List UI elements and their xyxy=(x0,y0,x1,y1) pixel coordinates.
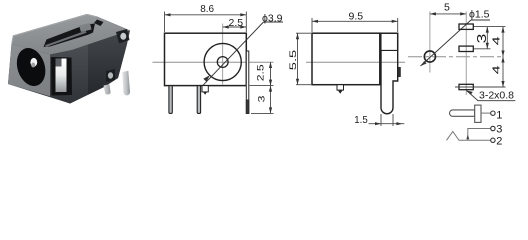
svg-text:3-2x0.8: 3-2x0.8 xyxy=(479,90,514,102)
front view: body rectangle xyxy=(165,33,247,85)
photo: slot face xyxy=(50,45,88,104)
photo: side slot opening xyxy=(51,57,72,96)
dimension 3 right line xyxy=(251,112,274,114)
dimension 1.5 line and outside arrows xyxy=(369,123,405,125)
top view: vertical centerline of circle xyxy=(429,12,431,73)
schematic: branch to pin 3 xyxy=(468,129,491,141)
dimension 4 upper: extension xyxy=(455,86,506,88)
side view: top tab xyxy=(380,33,397,50)
svg-text:5.5: 5.5 xyxy=(288,50,299,70)
top view: pin 2 rect (fill) xyxy=(459,46,473,51)
svg-text:2.5: 2.5 xyxy=(255,64,265,81)
photo: small pin stub xyxy=(104,84,111,94)
front view: vertical centerline of barrel xyxy=(222,24,224,85)
svg-text:ϕ3.9: ϕ3.9 xyxy=(262,13,283,25)
dimension 4 upper line xyxy=(502,27,504,57)
schematic: center pin capsule xyxy=(449,110,474,116)
svg-text:8.6: 8.6 xyxy=(200,3,214,15)
front view: diameter leader line xyxy=(203,22,264,86)
photo: small square hole top right xyxy=(94,20,104,27)
svg-text:ϕ1.5: ϕ1.5 xyxy=(469,9,490,21)
top view: phi1.5 underline xyxy=(471,19,490,21)
schematic group xyxy=(447,105,503,147)
front view: left pin xyxy=(169,86,172,114)
top view: pin 3 rect (fill) xyxy=(459,84,473,89)
side view: front flange leg with rounded bottom xyxy=(381,50,398,113)
side view group xyxy=(288,10,405,126)
side view: right small tab xyxy=(398,68,401,77)
svg-text:2: 2 xyxy=(496,135,502,147)
photo: top slot inner back highlight xyxy=(79,23,92,32)
top view: pin 2 rect xyxy=(459,46,473,51)
dimension 9.5 line xyxy=(312,20,398,22)
svg-text:1: 1 xyxy=(496,109,502,121)
front view group xyxy=(153,3,284,114)
dimension 1.5: extensions xyxy=(380,114,382,126)
top view: pin 3 rect xyxy=(459,84,473,89)
photo: bottom-right long pin xyxy=(122,71,130,96)
dimension 3: extensions xyxy=(474,26,506,28)
top view: pin 1 rect xyxy=(459,24,473,29)
top view: pin column line xyxy=(465,12,467,96)
front view: barrel circle xyxy=(204,43,241,80)
photo: right face xyxy=(88,32,128,95)
schematic: pin 1 terminal circle xyxy=(491,111,495,115)
schematic: pin 3 terminal circle xyxy=(491,126,495,130)
dimension 3 line xyxy=(486,27,488,49)
photo: top edge highlight xyxy=(12,15,97,44)
photo: front face with barrel xyxy=(8,44,50,96)
dimension 5.5 line xyxy=(297,33,299,84)
svg-text:3: 3 xyxy=(496,123,502,135)
photo: barrel recess xyxy=(12,44,50,89)
svg-text:2.5: 2.5 xyxy=(229,17,244,29)
top view: horizontal centerline xyxy=(408,56,504,58)
dimension 8.6 extension lines xyxy=(164,12,166,33)
svg-text:9.5: 9.5 xyxy=(349,10,364,22)
schematic: switch lever xyxy=(447,132,491,141)
photo: right face notch xyxy=(106,69,115,82)
schematic: contact tick xyxy=(466,135,469,140)
dimension 5 line xyxy=(430,13,466,15)
dimension 9.5 extension lines xyxy=(311,18,313,32)
top view: pin 1 rect (fill) xyxy=(459,24,473,29)
front view: bottom bump xyxy=(202,86,208,92)
dimension 8.6 line xyxy=(165,14,247,16)
dimension 2.5 top line xyxy=(223,26,247,28)
top view: circle xyxy=(424,51,435,62)
dimension 4 lower line xyxy=(502,57,504,88)
label 3-2x0.8 leader xyxy=(467,91,479,101)
front view: center pin circle xyxy=(217,57,228,68)
front view: middle pin xyxy=(197,86,200,114)
top view group xyxy=(408,2,515,102)
photo: top-right notch metal xyxy=(120,33,126,40)
photo: side slot contact top notch xyxy=(56,59,62,67)
photo: side slot metal contact xyxy=(56,59,67,93)
svg-text:5: 5 xyxy=(444,2,450,14)
schematic: crossbar xyxy=(475,105,481,122)
photo: DC jack 3D view body silhouette xyxy=(8,14,130,104)
photo: top slot inner ledge xyxy=(45,31,87,47)
schematic: wire to pin 1 xyxy=(481,112,491,114)
front view: horizontal centerline xyxy=(153,61,274,63)
photo: right face notch metal dot xyxy=(108,72,113,78)
svg-text:3: 3 xyxy=(474,34,489,44)
svg-text:3: 3 xyxy=(256,96,267,103)
photo: top slot opening xyxy=(44,24,96,48)
photo: top-right notch xyxy=(116,29,130,44)
side view: body rectangle xyxy=(312,33,380,84)
side view: bottom bump xyxy=(337,85,344,90)
photo: center pin highlight xyxy=(30,58,37,67)
svg-text:4: 4 xyxy=(491,65,503,74)
photo: top face xyxy=(12,14,130,55)
dimension 2.5 right: extension + line xyxy=(250,85,274,87)
front view: right tab xyxy=(246,51,249,114)
side view: horizontal centerline xyxy=(306,61,405,63)
svg-text:1.5: 1.5 xyxy=(354,114,368,126)
svg-text:4: 4 xyxy=(491,36,503,45)
dimension phi3.9 leader underline xyxy=(264,21,284,23)
top view: diagonal leader phi1.5 xyxy=(421,20,472,66)
schematic: pin 2 terminal circle xyxy=(491,138,495,142)
dimension 5.5: extensions xyxy=(296,32,311,34)
